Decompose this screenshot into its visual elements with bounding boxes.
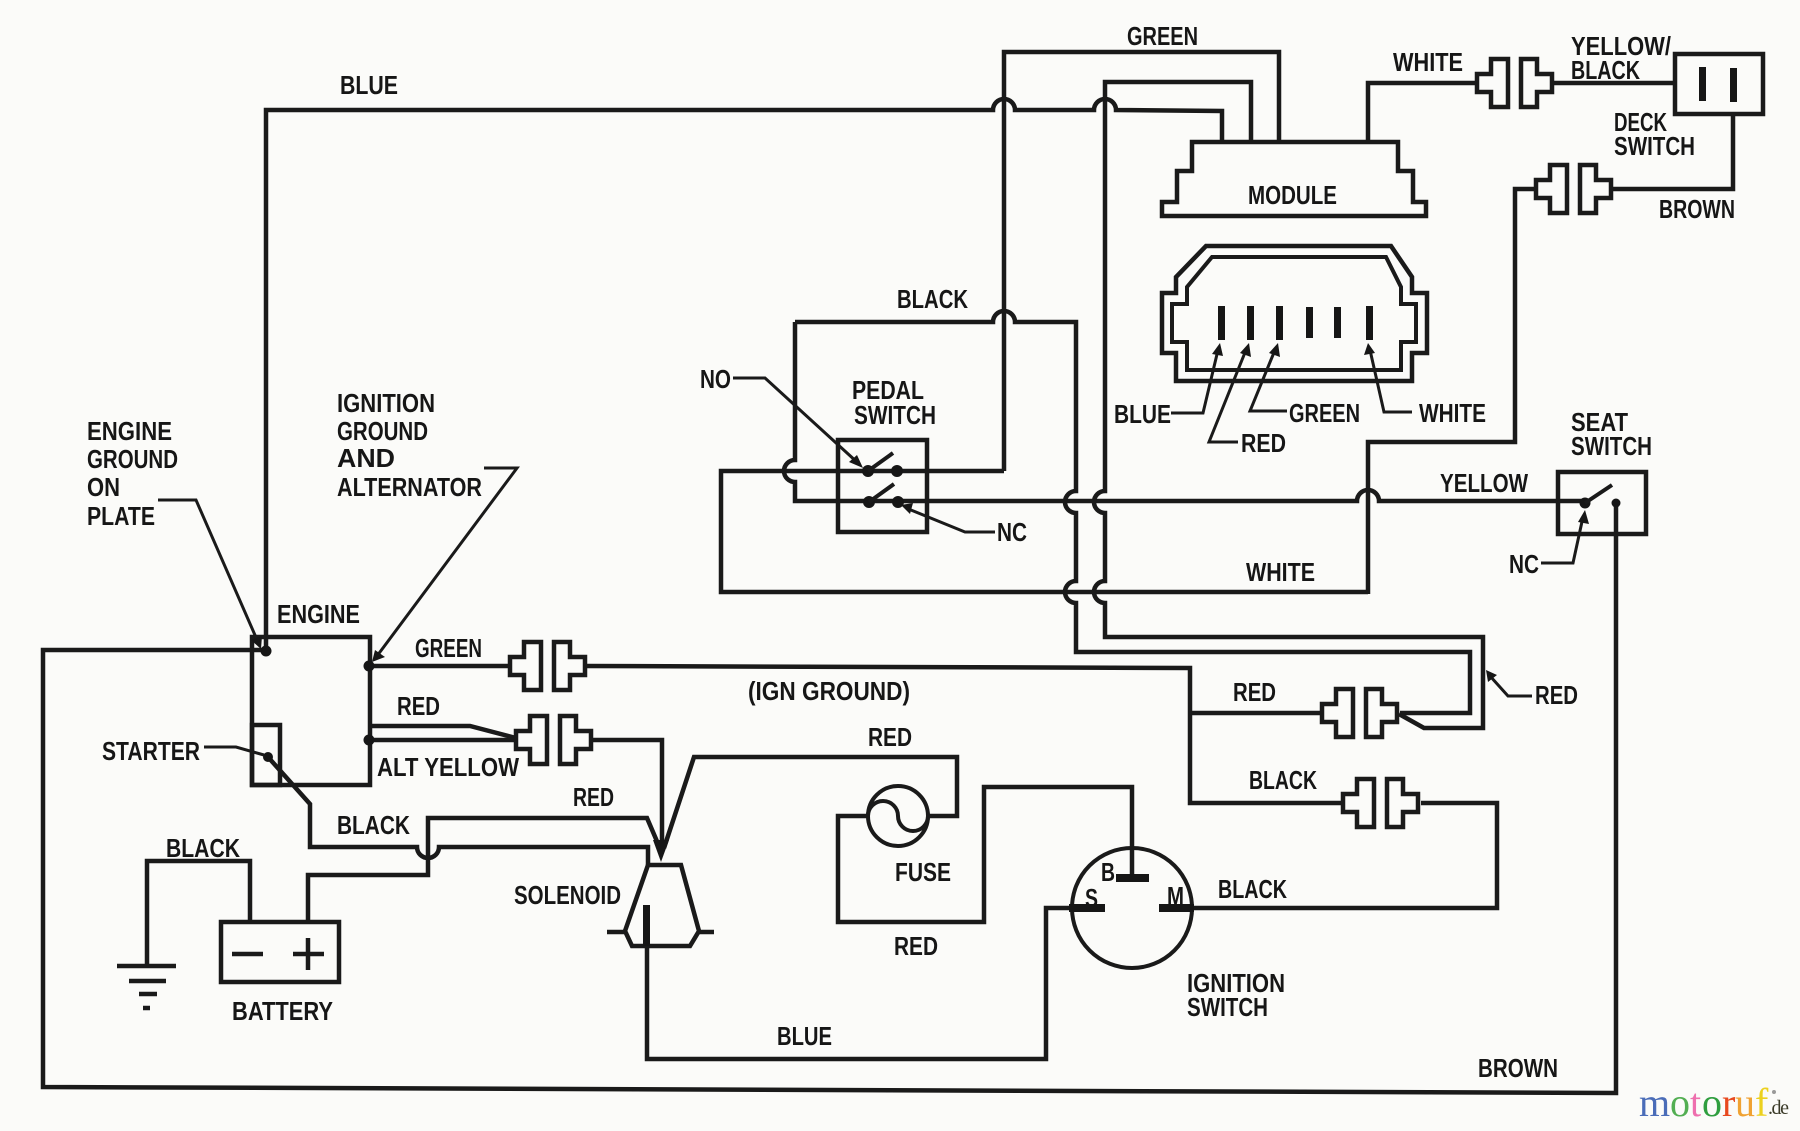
svg-text:WHITE: WHITE [1393, 47, 1463, 77]
svg-text:BLUE: BLUE [777, 1021, 832, 1051]
svg-text:WHITE: WHITE [1246, 557, 1315, 587]
svg-text:S: S [1085, 883, 1098, 913]
svg-text:BLACK: BLACK [1218, 874, 1287, 904]
svg-text:f: f [1755, 1080, 1769, 1125]
svg-text:GREEN: GREEN [415, 633, 482, 663]
svg-text:GREEN: GREEN [1289, 398, 1360, 428]
svg-text:GREEN: GREEN [1127, 21, 1198, 51]
svg-text:ALT YELLOW: ALT YELLOW [377, 752, 519, 782]
svg-text:(IGN GROUND): (IGN GROUND) [748, 676, 910, 706]
svg-text:SWITCH: SWITCH [1187, 992, 1268, 1022]
svg-text:ALTERNATOR: ALTERNATOR [337, 472, 482, 502]
svg-text:RED: RED [894, 931, 938, 961]
svg-text:YELLOW: YELLOW [1440, 468, 1528, 498]
svg-text:B: B [1101, 857, 1115, 887]
svg-text:AND: AND [337, 443, 395, 473]
svg-text:M: M [1167, 881, 1184, 911]
svg-text:NO: NO [700, 364, 731, 394]
svg-text:GROUND: GROUND [87, 444, 178, 474]
svg-text:RED: RED [868, 722, 912, 752]
svg-text:.de: .de [1768, 1097, 1789, 1119]
svg-text:BLUE: BLUE [1114, 399, 1171, 429]
svg-text:BLACK: BLACK [337, 810, 410, 840]
svg-text:t: t [1690, 1080, 1701, 1125]
svg-text:o: o [1702, 1080, 1722, 1125]
svg-text:RED: RED [573, 782, 614, 812]
svg-text:BLACK: BLACK [1249, 765, 1317, 795]
svg-text:r: r [1722, 1080, 1735, 1125]
svg-text:RED: RED [1233, 677, 1276, 707]
svg-text:RED: RED [1535, 680, 1578, 710]
svg-text:WHITE: WHITE [1419, 398, 1486, 428]
svg-text:BATTERY: BATTERY [232, 996, 333, 1026]
svg-text:NC: NC [1509, 549, 1539, 579]
svg-text:BLACK: BLACK [166, 833, 240, 863]
svg-text:BLACK: BLACK [1571, 55, 1640, 85]
svg-text:ENGINE: ENGINE [277, 599, 360, 629]
svg-text:SOLENOID: SOLENOID [514, 880, 621, 910]
svg-text:BROWN: BROWN [1478, 1053, 1558, 1083]
svg-text:RED: RED [1241, 428, 1286, 458]
svg-text:ENGINE: ENGINE [87, 416, 172, 446]
svg-text:BLUE: BLUE [340, 70, 398, 100]
svg-text:FUSE: FUSE [895, 857, 951, 887]
svg-text:SWITCH: SWITCH [854, 400, 936, 430]
svg-text:IGNITION: IGNITION [337, 388, 435, 418]
svg-text:SWITCH: SWITCH [1571, 431, 1652, 461]
svg-text:PLATE: PLATE [87, 501, 155, 531]
svg-text:u: u [1735, 1080, 1755, 1125]
svg-text:BLACK: BLACK [897, 284, 968, 314]
svg-text:m: m [1639, 1080, 1670, 1125]
svg-text:BROWN: BROWN [1659, 194, 1735, 224]
svg-text:ON: ON [87, 472, 120, 502]
svg-text:SWITCH: SWITCH [1614, 131, 1695, 161]
svg-text:o: o [1670, 1080, 1690, 1125]
svg-text:NC: NC [997, 517, 1027, 547]
svg-text:GROUND: GROUND [337, 416, 428, 446]
svg-text:STARTER: STARTER [102, 736, 200, 766]
svg-text:MODULE: MODULE [1248, 180, 1337, 210]
svg-text:RED: RED [397, 691, 440, 721]
